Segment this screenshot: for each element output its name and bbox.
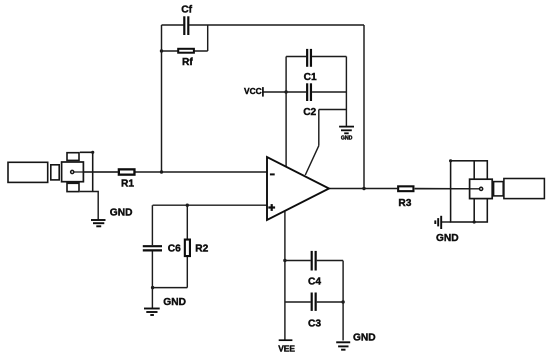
svg-text:R3: R3: [398, 198, 411, 209]
junction node C4 left: [283, 259, 286, 262]
wire left connector ground drop: [80, 192, 98, 220]
connector J1 pin circle: [71, 170, 74, 173]
capacitor C3: [312, 293, 316, 311]
junction node output feedback: [362, 187, 365, 190]
connector J1 body: [62, 162, 84, 182]
wire C6 top vertical: [151, 205, 153, 245]
VEE tick: [279, 339, 293, 341]
junction node inverting input: [160, 170, 163, 173]
wire feedback top horizontal: [162, 24, 184, 26]
junction node J2 bottom: [473, 220, 476, 223]
resistor R3: [398, 186, 413, 191]
capacitor C4: [312, 251, 316, 271]
wire Rf bottom path: [162, 50, 208, 52]
wire C3C4 right vertical to ground: [342, 261, 344, 341]
wire J1 pin to R1: [74, 171, 118, 173]
capacitor C1: [307, 49, 311, 67]
svg-text:VCC: VCC: [244, 86, 262, 96]
svg-text:R1: R1: [121, 179, 134, 190]
ground symbol bottom right: [336, 342, 350, 349]
capacitor Cf: [184, 16, 188, 35]
wire C4 rail: [285, 260, 311, 262]
connector J1 bottom rect: [67, 183, 79, 191]
connector J2 neck rect: [494, 182, 504, 196]
wire VCC rail: [264, 91, 307, 93]
junction node R2 top: [186, 204, 189, 207]
op-amp plus sign: [268, 204, 275, 211]
connector J2 cable rect: [504, 179, 545, 199]
wire feedback right vertical to output: [363, 25, 365, 189]
wire C3 rail: [285, 301, 311, 303]
svg-text:Cf: Cf: [181, 4, 192, 15]
svg-text:R2: R2: [195, 244, 208, 255]
wire C1 top rail: [286, 56, 306, 58]
svg-text:C2: C2: [303, 107, 316, 118]
ground symbol small at C1C2: [339, 127, 354, 134]
svg-text:C4: C4: [308, 276, 321, 287]
wire C1C2 right vertical to ground: [345, 57, 347, 126]
VCC tick: [262, 87, 264, 97]
wire non-inverting input: [153, 204, 267, 206]
svg-text:Rf: Rf: [182, 57, 193, 68]
wire right connector ground link: [441, 221, 450, 223]
svg-text:GND: GND: [353, 333, 376, 344]
wire R3 to J2 pin: [415, 188, 480, 190]
connector J2 inner vertical: [473, 161, 475, 222]
junction node J2 top left: [449, 159, 452, 162]
wire C6 R2 bottom horizontal: [153, 287, 188, 289]
junction node C3 right: [341, 300, 344, 303]
wire R3 to connector J2: [415, 188, 480, 190]
resistor R1: [119, 169, 135, 174]
connector J2 pin circle: [480, 187, 483, 190]
wire R2 bottom vertical: [186, 257, 188, 288]
svg-text:VEE: VEE: [278, 343, 295, 353]
svg-text:GND: GND: [436, 233, 459, 244]
svg-text:GND: GND: [110, 207, 133, 218]
svg-text:C3: C3: [308, 318, 321, 329]
ground symbol bottom left: [144, 309, 160, 316]
connector J1 neck rect: [51, 165, 59, 180]
wire feedback left vertical: [161, 25, 163, 172]
connector J1 left BNC cable rect: [8, 162, 48, 182]
junction node C6 bottom: [151, 286, 154, 289]
connector J2 outer rect: [451, 161, 488, 222]
capacitor C6: [143, 246, 162, 250]
wire output to R3: [329, 188, 397, 190]
resistor Rf: [178, 49, 194, 53]
svg-text:GND: GND: [163, 297, 186, 308]
wire feedback block right vertical: [207, 25, 209, 51]
wire op-amp V+ supply vertical: [285, 57, 287, 168]
capacitor C2: [307, 83, 311, 101]
resistor R2: [185, 240, 190, 256]
wire input from connector pin to R1: [74, 171, 118, 173]
connector J1 bracket: [80, 152, 93, 191]
connector J2 body: [470, 179, 493, 198]
ground symbol right connector rotated: [435, 216, 441, 229]
wire op-amp pin5 vertical: [318, 110, 320, 146]
op-amp U1: [267, 157, 329, 220]
svg-text:C6: C6: [168, 244, 181, 255]
junction node Rf left: [160, 49, 163, 52]
junction node J1 bracket top: [91, 151, 94, 154]
junction node VCC crossing: [284, 90, 287, 93]
wire op-amp pin5 diagonal: [305, 146, 319, 175]
svg-text:GND: GND: [341, 136, 353, 142]
wire op-amp pin5 horizontal: [319, 109, 347, 111]
ground symbol left: [91, 220, 106, 226]
svg-text:C1: C1: [304, 72, 317, 83]
op-amp minus sign: [270, 173, 275, 175]
connector J1 top rect: [67, 153, 79, 161]
wire op-amp V- supply vertical VEE: [284, 211, 286, 340]
wire C6 bottom vertical to ground: [151, 252, 153, 309]
wire R1 to op-amp inverting input: [135, 171, 267, 173]
wire R2 top vertical: [186, 205, 188, 238]
